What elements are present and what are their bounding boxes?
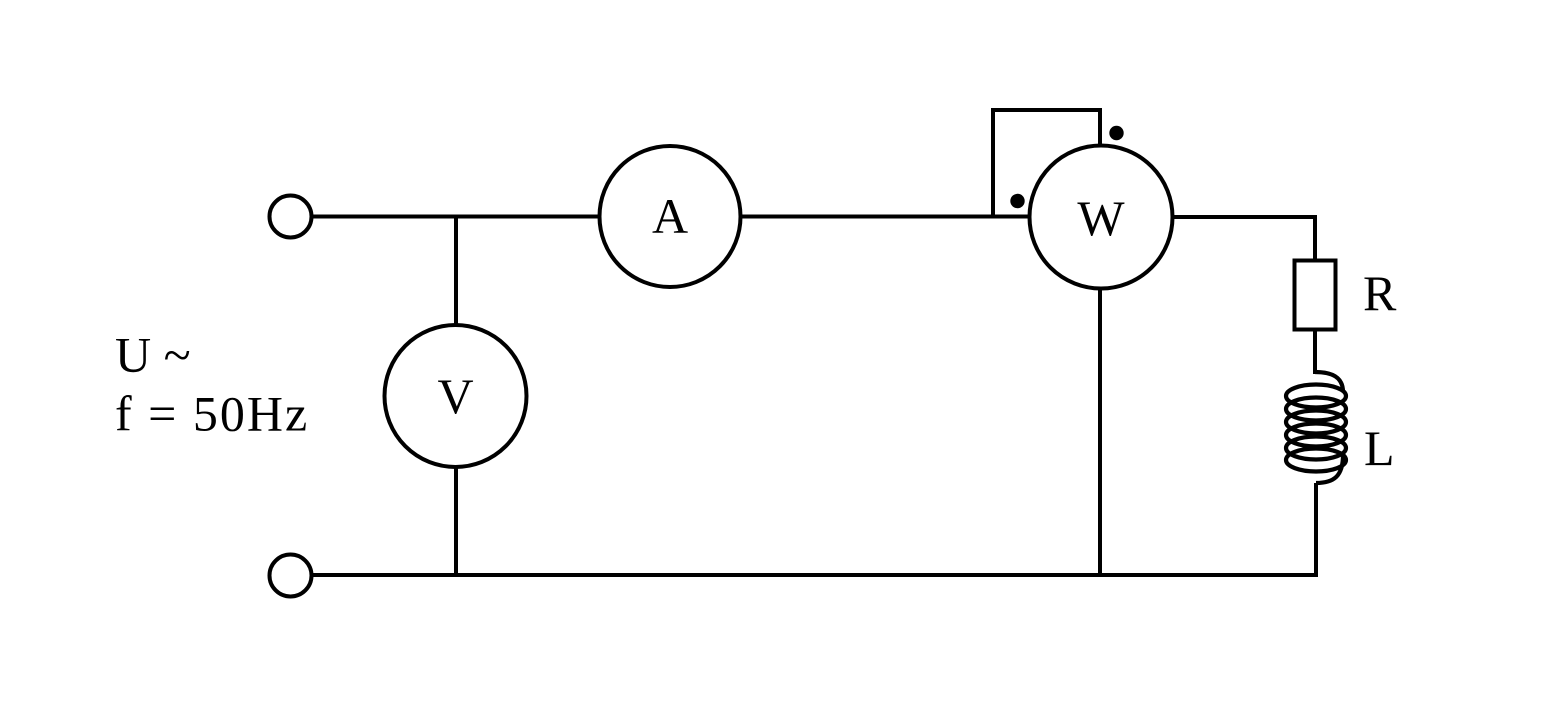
svg-text:W: W	[1077, 190, 1125, 246]
svg-text:U ~: U ~	[115, 327, 191, 383]
wire: ammeter to wattmeter	[741, 215, 1031, 219]
svg-text:L: L	[1364, 420, 1395, 476]
wattmeter W	[1030, 146, 1173, 289]
svg-text:f = 50Hz: f = 50Hz	[115, 386, 309, 442]
wire: inductor to bottom rail	[1314, 483, 1318, 575]
resistor R	[1295, 261, 1336, 330]
wire: wattmeter to resistor branch	[1172, 217, 1315, 260]
wattmeter voltage-coil bridge wire	[993, 110, 1100, 217]
terminal T2 (bottom input)	[270, 555, 312, 597]
voltmeter V	[385, 325, 527, 467]
wire: wattmeter bottom branch to rail	[1098, 288, 1102, 575]
polarity dot (voltage coil)	[1109, 126, 1123, 140]
terminal T1 (top input)	[270, 196, 312, 238]
wire: T1 to ammeter	[312, 215, 600, 219]
svg-text:V: V	[437, 368, 473, 424]
svg-text:R: R	[1363, 265, 1397, 321]
wire: voltmeter to bottom rail	[454, 466, 458, 575]
wire: junction to voltmeter	[454, 217, 458, 327]
svg-text:A: A	[652, 188, 688, 244]
polarity dot (current coil)	[1010, 194, 1024, 208]
inductor L	[1286, 372, 1346, 483]
bottom rail wire	[312, 573, 1319, 577]
wire: resistor to inductor	[1313, 331, 1317, 374]
ammeter A	[600, 146, 741, 287]
